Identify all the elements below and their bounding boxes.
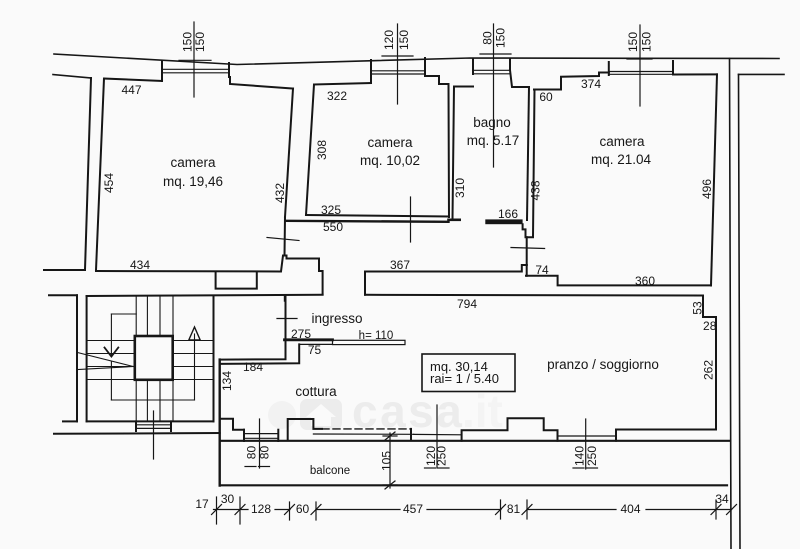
svg-text:cottura: cottura — [295, 384, 337, 399]
svg-text:75: 75 — [308, 343, 322, 357]
svg-text:105: 105 — [380, 451, 394, 471]
svg-text:pranzo / soggiorno: pranzo / soggiorno — [547, 357, 659, 372]
svg-text:mq. 10,02: mq. 10,02 — [360, 153, 420, 168]
svg-text:457: 457 — [403, 502, 423, 516]
svg-text:134: 134 — [220, 371, 234, 391]
svg-text:80: 80 — [245, 446, 259, 460]
svg-text:30: 30 — [221, 492, 235, 506]
svg-text:322: 322 — [327, 89, 347, 103]
svg-text:325: 325 — [321, 203, 341, 217]
svg-text:bagno: bagno — [473, 115, 511, 130]
svg-text:496: 496 — [700, 179, 714, 199]
svg-text:74: 74 — [535, 263, 549, 277]
svg-text:434: 434 — [130, 258, 150, 272]
svg-text:250: 250 — [585, 446, 599, 466]
svg-text:404: 404 — [620, 502, 640, 516]
svg-text:310: 310 — [453, 178, 467, 198]
svg-text:28: 28 — [703, 319, 717, 333]
svg-text:150: 150 — [397, 30, 411, 50]
svg-text:34: 34 — [715, 492, 729, 506]
svg-text:454: 454 — [102, 173, 116, 193]
svg-text:360: 360 — [635, 274, 655, 288]
svg-text:150: 150 — [639, 32, 653, 52]
svg-text:550: 550 — [323, 220, 343, 234]
svg-text:120: 120 — [382, 30, 396, 50]
svg-text:308: 308 — [315, 140, 329, 160]
svg-text:h= 110: h= 110 — [359, 330, 394, 342]
svg-text:mq. 5.17: mq. 5.17 — [467, 133, 520, 148]
svg-text:camera: camera — [170, 155, 216, 170]
svg-text:150: 150 — [626, 32, 640, 52]
svg-text:mq. 19,46: mq. 19,46 — [163, 174, 223, 189]
svg-text:camera: camera — [599, 134, 645, 149]
svg-text:367: 367 — [390, 258, 410, 272]
svg-text:rai= 1 / 5.40: rai= 1 / 5.40 — [430, 371, 499, 386]
svg-text:camera: camera — [367, 135, 413, 150]
svg-text:128: 128 — [251, 502, 271, 516]
svg-text:80: 80 — [258, 446, 272, 460]
svg-text:250: 250 — [435, 446, 449, 466]
svg-text:balcone: balcone — [310, 465, 350, 477]
svg-text:150: 150 — [193, 32, 207, 52]
svg-text:53: 53 — [691, 301, 705, 315]
svg-text:mq. 21.04: mq. 21.04 — [591, 152, 652, 167]
svg-text:60: 60 — [539, 90, 553, 104]
svg-text:81: 81 — [507, 502, 521, 516]
svg-text:80: 80 — [481, 31, 495, 45]
svg-text:275: 275 — [291, 327, 311, 341]
svg-text:166: 166 — [498, 207, 518, 221]
svg-text:432: 432 — [273, 183, 287, 203]
svg-text:794: 794 — [457, 297, 477, 311]
svg-text:ingresso: ingresso — [311, 311, 362, 326]
svg-text:262: 262 — [702, 360, 716, 380]
svg-text:447: 447 — [121, 83, 141, 97]
svg-text:60: 60 — [296, 502, 310, 516]
svg-text:184: 184 — [243, 360, 263, 374]
svg-text:150: 150 — [494, 28, 508, 48]
svg-text:17: 17 — [195, 497, 209, 511]
svg-text:374: 374 — [581, 77, 601, 91]
svg-text:438: 438 — [529, 180, 543, 200]
